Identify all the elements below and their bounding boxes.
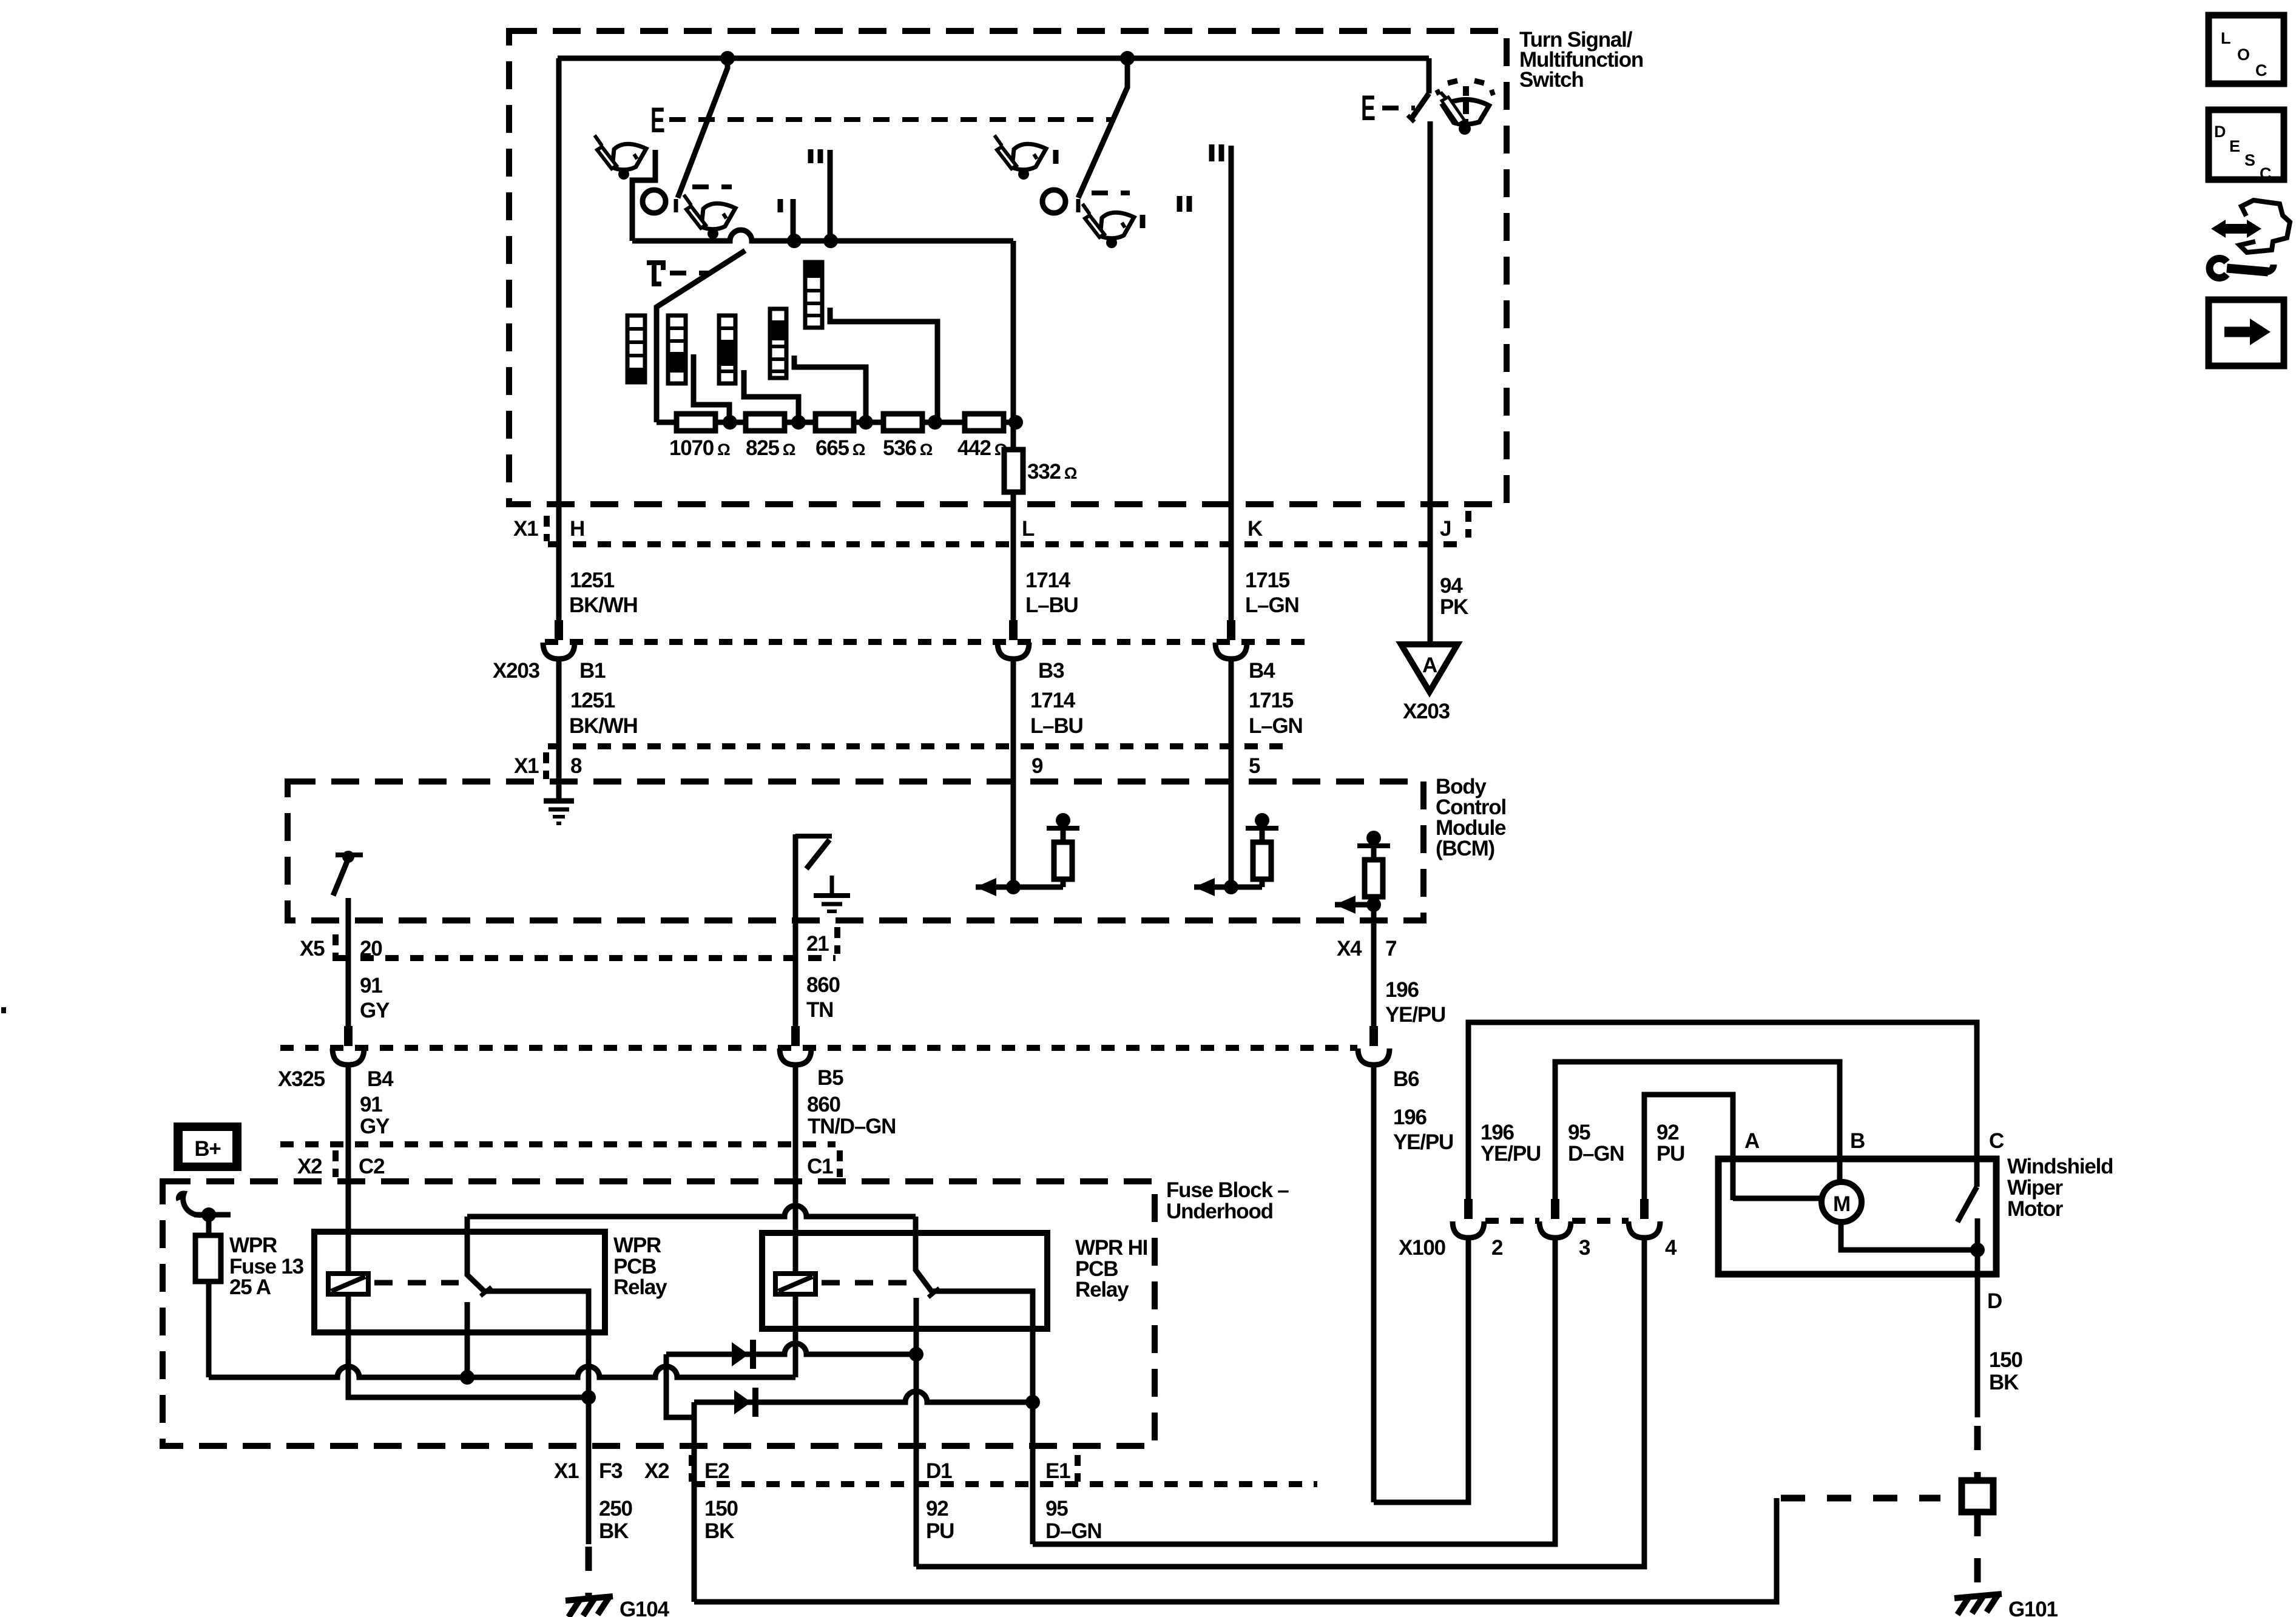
svg-text:196: 196	[1393, 1106, 1427, 1129]
fuse WPR Fuse 13 25A	[195, 1235, 221, 1281]
svg-text:250: 250	[599, 1497, 633, 1521]
dashed link E positions	[669, 117, 1114, 122]
wire splice dashed to ground	[1974, 1512, 1981, 1591]
svg-text:BK: BK	[704, 1519, 734, 1543]
circle off position right gang	[1042, 190, 1065, 213]
svg-text:91: 91	[360, 1093, 382, 1116]
resistor 665 ohm	[815, 414, 854, 431]
tick E1	[1075, 1455, 1081, 1482]
wire K contact II output	[1229, 146, 1234, 640]
wire tap bar E	[830, 308, 937, 422]
svg-text:B: B	[1850, 1129, 1865, 1153]
icon box LOC (top right)	[2209, 15, 2284, 84]
wire gang bus with crossover hump	[632, 230, 1013, 241]
tick X2	[333, 1150, 339, 1177]
svg-text:X1: X1	[554, 1459, 579, 1483]
connector X2 bottom row dense line	[692, 1481, 1317, 1487]
label Fuse Block - Underhood	[1166, 1178, 1289, 1223]
svg-text:1251: 1251	[570, 569, 615, 592]
wire top bus of switch	[558, 56, 1429, 61]
junction dot K1 NO on bus	[460, 1370, 474, 1385]
wire label 1715 L-GN lower	[1249, 689, 1303, 738]
junction dots ladder	[723, 415, 1023, 430]
junction dot park switch	[1970, 1243, 1985, 1257]
diode CR1	[732, 1340, 756, 1369]
input sense BCM pin 9 arrow and resistor	[976, 813, 1079, 896]
wire label 860 TN	[806, 973, 840, 1022]
svg-text:X4: X4	[1337, 937, 1362, 960]
icon wrench	[2210, 258, 2274, 278]
tick J	[1465, 511, 1471, 538]
svg-text:X325: X325	[278, 1067, 325, 1091]
wire B4 to BCM pin 5	[1229, 659, 1234, 887]
wire BCM pin 20	[346, 898, 351, 1028]
ground G101	[1954, 1594, 2002, 1615]
label Windshield Wiper Motor	[2007, 1155, 2113, 1221]
wire coil K2 to bus	[793, 1294, 799, 1377]
svg-text:2: 2	[1491, 1236, 1503, 1260]
wire label 95 D-GN	[1045, 1497, 1101, 1543]
contact tick left gang arm	[674, 199, 678, 212]
svg-text:Wiper: Wiper	[2007, 1176, 2063, 1200]
junction dot F3	[581, 1390, 596, 1405]
svg-text:94: 94	[1440, 574, 1463, 598]
wire B1 to BCM	[556, 659, 562, 800]
wire relay K2 NO throw to D1	[914, 1298, 919, 1567]
detent band bar A	[627, 316, 645, 382]
label Turn Signal/Multifunction Switch	[1519, 28, 1643, 92]
label I right gang icon1	[1053, 150, 1059, 164]
connector X325 row dense line	[280, 1045, 1357, 1051]
svg-text:Relay: Relay	[613, 1275, 667, 1299]
switch internal BCM pin 20	[333, 851, 363, 896]
wire label 150 BK motor	[1989, 1348, 2023, 1394]
svg-text:E2: E2	[704, 1459, 729, 1483]
wire 150 BK dashed to splice	[1781, 1495, 1940, 1502]
svg-text:25 A: 25 A	[229, 1275, 271, 1299]
svg-text:E: E	[650, 101, 665, 140]
wire B6 down	[1371, 1065, 1377, 1502]
wiper icon right gang position 2	[1082, 204, 1134, 248]
wire X100-4 up to motor A feed	[1644, 1095, 1733, 1204]
box Body Control Module	[288, 781, 1423, 920]
relay box WPR PCB Relay	[314, 1232, 605, 1332]
svg-text:3: 3	[1579, 1236, 1590, 1260]
relay K1 armature	[467, 1217, 491, 1296]
tick X1	[544, 516, 550, 541]
label I left gang	[778, 199, 783, 212]
svg-text:S: S	[2244, 151, 2255, 169]
wire gang bus right drop to ladder	[1011, 241, 1016, 450]
svg-text:X2: X2	[297, 1155, 322, 1178]
svg-text:92: 92	[1656, 1121, 1679, 1144]
wire relay K1 common to relay K2	[467, 1206, 916, 1217]
svg-text:4: 4	[1665, 1236, 1677, 1260]
svg-text:(BCM): (BCM)	[1436, 837, 1494, 860]
wire ladder bottom	[657, 420, 1016, 425]
connector X203 row dense line	[545, 639, 1311, 645]
wire contact post left gang icon1	[632, 150, 655, 241]
junction dot left gang	[720, 51, 735, 66]
wire label 250 BK	[599, 1497, 633, 1543]
relay coil K1	[328, 1274, 368, 1294]
resistor 536 ohm	[883, 414, 922, 431]
junction dot contact II	[823, 234, 838, 248]
relay coil K2	[775, 1274, 815, 1294]
svg-text:Relay: Relay	[1075, 1278, 1129, 1301]
svg-text:95: 95	[1045, 1497, 1068, 1521]
wire resistor ladder feed diagonal	[657, 251, 745, 422]
svg-text:TN: TN	[806, 998, 833, 1022]
svg-text:B5: B5	[817, 1066, 843, 1090]
svg-text:A: A	[1422, 653, 1437, 677]
svg-text:Motor: Motor	[2007, 1197, 2064, 1221]
diode line 2	[694, 1391, 1033, 1417]
wiper icon left gang position 2	[684, 195, 735, 239]
svg-text:PK: PK	[1440, 595, 1468, 619]
detent band bar D	[770, 309, 786, 378]
wire X100-3 up to motor B feed	[1555, 1062, 1840, 1204]
dashed mark above left icon2	[692, 184, 732, 189]
wire relay K1 NO throw	[465, 1302, 470, 1377]
svg-text:B1: B1	[579, 659, 606, 683]
wire B4 to fuse block C2	[346, 1065, 351, 1274]
svg-text:C: C	[1989, 1129, 2004, 1153]
circle off position left gang	[643, 190, 666, 213]
svg-text:WPR: WPR	[613, 1234, 661, 1257]
svg-text:GY: GY	[360, 1115, 390, 1138]
svg-text:YE/PU: YE/PU	[1393, 1130, 1453, 1154]
detent band bar E	[805, 262, 822, 328]
svg-text:H: H	[570, 517, 584, 541]
dashed link E wash	[1382, 106, 1415, 110]
svg-text:21: 21	[806, 932, 829, 956]
diode CR2	[734, 1388, 758, 1417]
svg-text:Windshield: Windshield	[2007, 1155, 2113, 1178]
connector cup X325 B4	[333, 1026, 364, 1065]
svg-text:M: M	[1833, 1192, 1850, 1216]
wire label 196 YE/PU motor feed	[1481, 1121, 1541, 1166]
connector cup X203 B1	[543, 620, 575, 659]
svg-text:B4: B4	[367, 1067, 394, 1091]
resistor 332 ohm	[1004, 450, 1023, 492]
wire F3 down	[586, 1397, 592, 1544]
svg-text:C: C	[2255, 61, 2267, 79]
svg-text:Fuse Block –: Fuse Block –	[1166, 1178, 1289, 1202]
detent band bar C	[719, 316, 735, 383]
tick 21	[834, 927, 840, 954]
input sense BCM pin 5 arrow and resistor	[1194, 813, 1278, 896]
svg-text:L: L	[1022, 517, 1035, 541]
svg-text:9: 9	[1032, 754, 1043, 778]
label WPR HI PCB Relay	[1075, 1236, 1147, 1301]
connector X1 row dense line	[548, 541, 1466, 547]
svg-text:Switch: Switch	[1519, 68, 1584, 92]
label WPR Fuse 13 25 A	[229, 1234, 304, 1299]
svg-text:K: K	[1248, 517, 1263, 541]
svg-text:95: 95	[1568, 1121, 1590, 1144]
svg-text:G101: G101	[2008, 1598, 2058, 1617]
svg-text:PU: PU	[1656, 1142, 1684, 1166]
splice connector square	[1962, 1480, 1993, 1512]
wire 92 PU run to X100-4	[916, 1238, 1644, 1567]
page speck	[1, 1007, 6, 1013]
switch arm left gang	[678, 58, 728, 198]
svg-text:X1: X1	[513, 517, 538, 541]
label I right gang icon2	[1140, 215, 1146, 228]
svg-text:D: D	[1987, 1289, 2002, 1313]
dashed link 7 position	[670, 271, 709, 275]
glyph 7 position marker	[647, 263, 663, 284]
wire F3 dashed to ground	[586, 1547, 592, 1599]
connector X2 row dense line	[280, 1141, 836, 1147]
wire label 860 TN/D-GN	[807, 1093, 896, 1138]
connector X100 row dashes	[1485, 1218, 1629, 1224]
label II right gang mid	[1180, 196, 1189, 212]
svg-text:B3: B3	[1038, 659, 1064, 683]
wire 150 BK bottom run	[694, 1498, 1777, 1602]
tick X5	[333, 934, 339, 961]
wire X100-2 up to motor C feed	[1468, 1022, 1977, 1204]
dashed mark above right icon2	[1092, 191, 1130, 195]
box Windshield Wiper Motor	[1718, 1159, 1996, 1274]
wire 95 D-GN run to X100-3	[1033, 1238, 1555, 1544]
box Turn Signal/Multifunction Switch	[509, 31, 1507, 504]
svg-text:L–GN: L–GN	[1249, 714, 1303, 738]
svg-text:O: O	[2237, 46, 2250, 64]
relay K2 armature	[916, 1217, 939, 1297]
connector cup X325 B5	[780, 1026, 811, 1065]
wire motor M to park switch	[1841, 1222, 1977, 1250]
wire L output	[1011, 492, 1016, 640]
wire 196 YE/PU run to X100-2	[1374, 1238, 1468, 1502]
ground internal BCM pin 8	[544, 801, 574, 823]
wire BCM X4 pin 7 down	[1371, 905, 1377, 1028]
wire relay K2 contact output	[933, 1291, 1033, 1402]
svg-text:X5: X5	[300, 937, 325, 960]
wiper icon left gang position 1	[595, 135, 646, 180]
svg-text:B+: B+	[194, 1137, 221, 1161]
svg-text:B6: B6	[1393, 1067, 1419, 1091]
tick X2 bottom	[689, 1455, 695, 1482]
connector cup X100 pin 4	[1629, 1199, 1660, 1238]
connector cup X100 pin 2	[1453, 1199, 1484, 1238]
wire label 95 D-GN motor feed	[1568, 1121, 1624, 1166]
wire contact I left gang	[791, 199, 796, 241]
svg-text:D: D	[2214, 123, 2226, 141]
junction dot right gang	[1120, 51, 1135, 66]
contact tick right gang arm	[1076, 199, 1081, 212]
svg-text:X1: X1	[514, 754, 539, 778]
ground G104	[566, 1596, 613, 1617]
switch arm right gang	[1078, 58, 1127, 198]
svg-text:F3: F3	[599, 1459, 623, 1483]
connector X5 row dense line	[336, 955, 836, 961]
svg-text:D1: D1	[926, 1459, 952, 1483]
svg-text:GY: GY	[360, 999, 390, 1022]
svg-text:C: C	[2260, 164, 2272, 183]
svg-text:WPR HI: WPR HI	[1075, 1236, 1147, 1260]
dashed link relay K2	[822, 1280, 907, 1286]
wire motor A internal	[1733, 1196, 1823, 1201]
wire label 1714 L-BU lower	[1030, 689, 1083, 738]
svg-text:C1: C1	[807, 1155, 833, 1178]
svg-text:L–GN: L–GN	[1245, 593, 1299, 617]
junction dot diode 1 to D1 wire	[909, 1347, 923, 1362]
relay box WPR HI PCB Relay	[762, 1233, 1047, 1329]
svg-text:C2: C2	[359, 1155, 385, 1178]
svg-text:X203: X203	[1403, 700, 1450, 723]
svg-text:B4: B4	[1249, 659, 1275, 683]
svg-text:A: A	[1744, 1129, 1760, 1153]
wire D output	[1975, 1250, 1980, 1417]
svg-text:1715: 1715	[1249, 689, 1294, 712]
park switch arm motor C	[1957, 1187, 1977, 1250]
battery stud hook	[178, 1193, 206, 1215]
washer wiper icon	[1437, 81, 1493, 135]
icon box DESC	[2209, 110, 2284, 183]
connector cup X203 B4	[1215, 620, 1247, 659]
junction dot contact I	[787, 234, 802, 248]
wire tap bar C	[744, 370, 799, 422]
svg-text:860: 860	[806, 973, 840, 997]
svg-text:20: 20	[360, 937, 382, 960]
svg-text:YE/PU: YE/PU	[1385, 1003, 1445, 1027]
svg-text:BK/WH: BK/WH	[569, 714, 638, 738]
dashed link relay K1	[374, 1280, 459, 1286]
connector X1 row 2 dense line	[548, 743, 1292, 749]
svg-text:BK/WH: BK/WH	[569, 593, 638, 617]
svg-text:BK: BK	[599, 1519, 629, 1543]
svg-text:WPR: WPR	[229, 1234, 277, 1257]
wire label 1251 BK/WH lower	[569, 689, 638, 738]
svg-text:D–GN: D–GN	[1045, 1519, 1101, 1543]
svg-text:L–BU: L–BU	[1030, 714, 1083, 738]
svg-text:5: 5	[1249, 754, 1260, 778]
wire label 92 PU	[926, 1497, 954, 1543]
svg-text:YE/PU: YE/PU	[1481, 1142, 1541, 1166]
svg-text:L: L	[2221, 29, 2231, 47]
wire tap bar B	[694, 354, 729, 422]
svg-text:X203: X203	[493, 659, 540, 683]
diode line 1	[666, 1343, 916, 1417]
svg-text:E: E	[2229, 137, 2240, 155]
svg-text:PU: PU	[926, 1519, 954, 1543]
label Body Control Module (BCM)	[1436, 775, 1506, 860]
svg-text:D–GN: D–GN	[1568, 1142, 1624, 1166]
output BCM X4 pin 7 arrow and resistor	[1335, 831, 1390, 914]
icon box right-arrow	[2209, 300, 2284, 366]
svg-text:150: 150	[704, 1497, 738, 1521]
svg-text:92: 92	[926, 1497, 948, 1521]
junction dot diode 2 to E1 wire	[1025, 1395, 1040, 1409]
connector triangle A X203	[1401, 644, 1457, 692]
svg-text:150: 150	[1989, 1348, 2023, 1372]
battery feed B+ box	[174, 1122, 241, 1171]
wire fuse down to bus	[206, 1281, 212, 1377]
svg-text:E1: E1	[1045, 1459, 1070, 1483]
wire E1 output down	[1030, 1402, 1036, 1544]
wiper icon right gang position 1	[994, 135, 1046, 180]
wire J output	[1428, 121, 1433, 644]
wire tap bar D	[794, 356, 866, 422]
wire battery to fuse	[206, 1215, 212, 1235]
icon harness outline with double arrow	[2211, 200, 2290, 252]
connector cup X325 B6	[1358, 1026, 1389, 1065]
wire label 196 YE/PU	[1385, 978, 1445, 1027]
tick C1	[837, 1150, 843, 1177]
wire D dashed to splice	[1974, 1426, 1981, 1480]
svg-text:J: J	[1440, 517, 1451, 541]
svg-text:196: 196	[1481, 1121, 1514, 1144]
svg-text:X2: X2	[644, 1459, 669, 1483]
label II right gang contact	[1212, 144, 1221, 161]
svg-text:860: 860	[807, 1093, 841, 1116]
tick X1 row2	[543, 752, 549, 779]
wire B5 to fuse block C1	[793, 1065, 799, 1274]
junction dot battery feed	[194, 1212, 231, 1218]
wire label 150 BK	[704, 1497, 738, 1543]
wire label 92 PU motor feed	[1656, 1121, 1684, 1166]
wire label 91 GY	[360, 974, 390, 1022]
wire E2 ground drop	[692, 1417, 697, 1602]
svg-text:BK: BK	[1989, 1371, 2019, 1394]
wire B3 to BCM pin 9	[1011, 659, 1016, 887]
switch internal BCM pin 21	[795, 834, 832, 920]
svg-text:8: 8	[570, 754, 582, 778]
connector cup X100 pin 3	[1539, 1199, 1571, 1238]
svg-text:91: 91	[360, 974, 382, 998]
connector cup X203 B3	[998, 620, 1029, 659]
wire B+ bus	[209, 1366, 795, 1377]
wire label 94 PK	[1440, 574, 1468, 619]
label WPR PCB Relay	[613, 1234, 667, 1299]
svg-text:G104: G104	[620, 1598, 670, 1617]
detent band bar B	[668, 316, 686, 383]
resistor 442 ohm	[965, 414, 1004, 431]
wire BCM pin 21 to X325	[793, 920, 799, 1028]
resistor 825 ohm	[746, 414, 785, 431]
svg-text:L–BU: L–BU	[1025, 593, 1078, 617]
svg-text:1251: 1251	[570, 689, 615, 712]
wire label 196 YE/PU lower	[1393, 1106, 1453, 1154]
svg-text:1714: 1714	[1030, 689, 1076, 712]
resistor 1070 ohm	[677, 414, 715, 431]
motor M1	[1822, 1182, 1862, 1222]
wire label 1714 L-BU	[1025, 569, 1078, 617]
label II left gang	[811, 149, 820, 163]
svg-text:7: 7	[1385, 937, 1396, 960]
wire H feed vertical	[556, 58, 562, 640]
wire coil K1 ground bus	[348, 1294, 589, 1397]
wire label 1715 L-GN	[1245, 569, 1299, 617]
switch arm J wash	[1408, 58, 1429, 122]
wire label 1251 BK/WH	[569, 569, 638, 617]
svg-text:196: 196	[1385, 978, 1419, 1002]
svg-text:1714: 1714	[1025, 569, 1071, 592]
wire relay K1 contact output	[485, 1291, 589, 1397]
svg-text:X100: X100	[1399, 1236, 1446, 1260]
svg-text:TN/D–GN: TN/D–GN	[808, 1115, 896, 1138]
ground internal BCM pin 21	[814, 876, 850, 911]
wire label 91 GY lower	[360, 1093, 390, 1138]
wire contact II left gang	[828, 150, 833, 241]
box Fuse Block Underhood	[163, 1181, 1155, 1446]
svg-text:1715: 1715	[1245, 569, 1290, 592]
svg-text:Underhood: Underhood	[1166, 1200, 1273, 1223]
svg-text:E: E	[1361, 89, 1376, 128]
